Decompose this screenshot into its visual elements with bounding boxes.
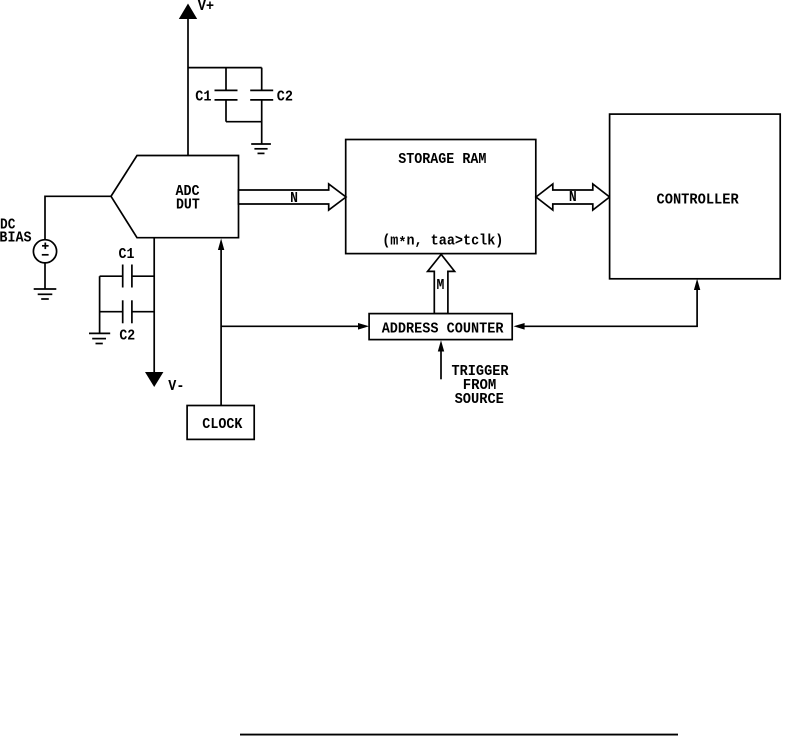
wire bias source to ground — [44, 263, 46, 289]
CONTROLLER block — [610, 114, 781, 279]
ADC DUT label — [176, 183, 200, 214]
wire ADC bottom to V- — [153, 238, 155, 373]
svg-text:V-: V- — [168, 378, 184, 395]
V- power arrow — [145, 372, 163, 387]
STORAGE RAM block — [346, 140, 536, 254]
svg-text:C1: C1 — [195, 89, 211, 106]
arrowhead into address counter left — [358, 323, 369, 330]
svg-text:SOURCE: SOURCE — [455, 391, 504, 408]
capacitor C2 (left bypass) — [100, 300, 155, 323]
svg-text:DUT: DUT — [176, 197, 200, 214]
svg-text:CLOCK: CLOCK — [202, 416, 242, 433]
capacitor C1 (top) — [215, 68, 238, 122]
arrowhead clock into ADC — [218, 239, 224, 251]
arrowhead trigger into address counter — [438, 340, 444, 351]
svg-text:(m*n, taa>tclk): (m*n, taa>tclk) — [382, 232, 503, 252]
svg-text:ADDRESS COUNTER: ADDRESS COUNTER — [382, 320, 504, 337]
wire controller to address counter — [524, 289, 697, 326]
bus arrow N from ADC to RAM — [239, 184, 347, 210]
svg-text:C2: C2 — [119, 327, 135, 344]
wire C1 bottom rail to C2 — [226, 121, 262, 123]
svg-text:N: N — [569, 189, 577, 206]
svg-text:C1: C1 — [119, 246, 135, 263]
arrowhead into controller bottom — [694, 279, 700, 290]
capacitor C1 (left bypass) — [100, 265, 155, 288]
footer rule — [240, 734, 678, 736]
svg-text:C2: C2 — [277, 89, 293, 106]
svg-text:BIAS: BIAS — [0, 230, 32, 247]
svg-text:CONTROLLER: CONTROLLER — [657, 191, 739, 208]
bus arrow M from address counter to RAM — [428, 254, 455, 313]
wire DC bias to ADC input — [45, 196, 111, 239]
trigger wire — [440, 350, 442, 379]
arrowhead into address counter right — [514, 323, 525, 330]
svg-text:STORAGE RAM: STORAGE RAM — [398, 151, 486, 168]
wire clock junction to address counter — [221, 325, 359, 327]
capacitor C2 (top) — [250, 68, 273, 144]
V+ power arrow — [179, 4, 197, 20]
wire clock to ADC — [220, 249, 222, 406]
ground (top decoupling) — [251, 144, 271, 153]
ADC DUT block — [111, 156, 239, 238]
DC BIAS label — [0, 217, 32, 247]
CLOCK block — [187, 406, 254, 440]
svg-text:N: N — [290, 190, 298, 207]
wire top decoupling branch — [188, 67, 262, 69]
wire left cap bus — [99, 276, 101, 333]
TRIGGER FROM SOURCE label — [452, 363, 509, 408]
ground (left bypass caps) — [89, 333, 110, 343]
ground (DC bias) — [34, 289, 57, 299]
bus arrow N between RAM and CONTROLLER (bidirectional) — [536, 184, 610, 210]
DC bias source — [33, 240, 56, 263]
ADDRESS COUNTER block — [369, 314, 512, 340]
wire V+ supply line — [187, 18, 189, 156]
svg-text:M: M — [437, 277, 445, 294]
svg-text:V+: V+ — [198, 0, 214, 15]
